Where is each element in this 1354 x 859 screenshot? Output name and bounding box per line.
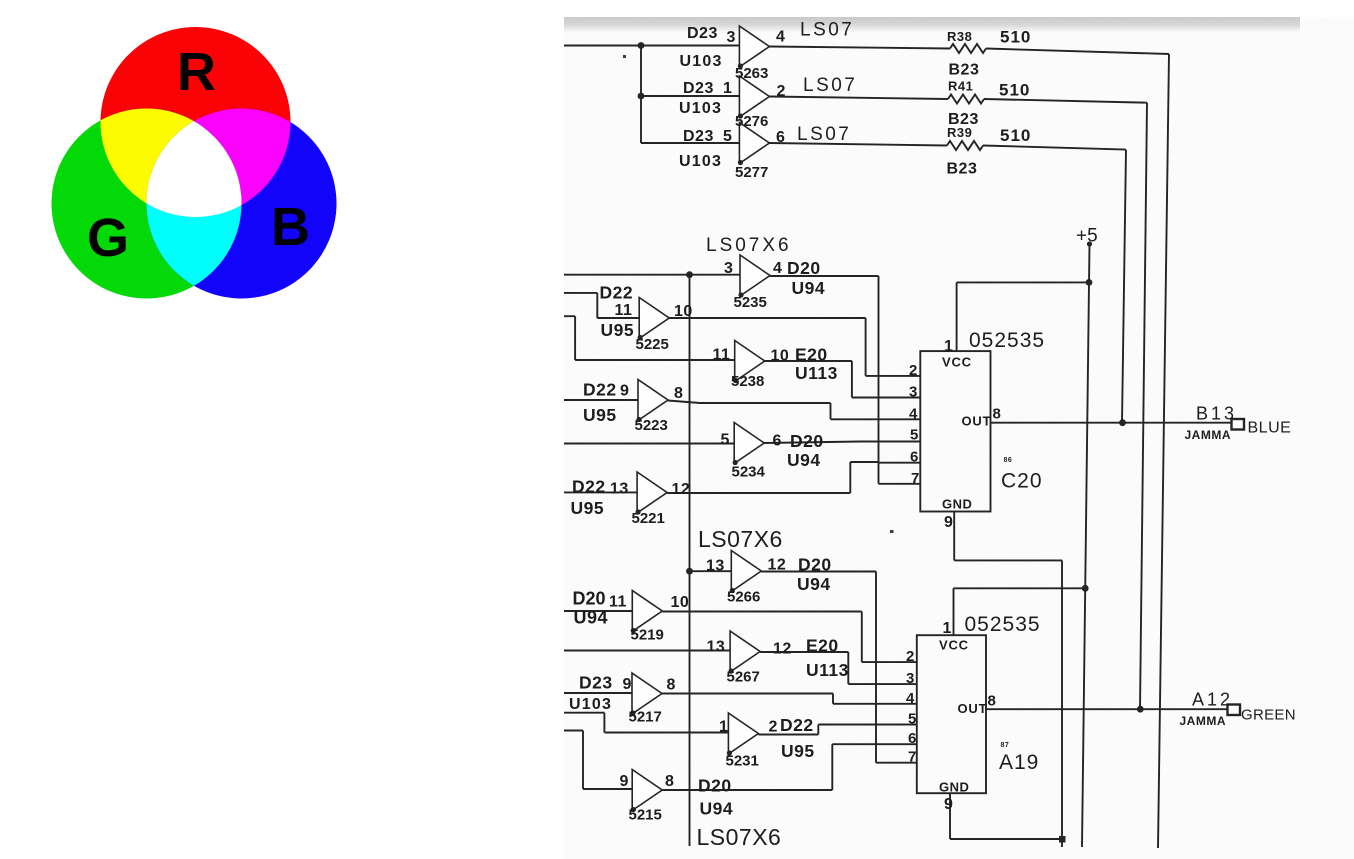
wire C20 OUT to JAMMA B13 (991, 422, 1233, 424)
wire vertical branch from row1 junction (640, 46, 642, 144)
buffer U103 S276 (LS07) (739, 76, 769, 117)
node bus junction bottom (686, 568, 693, 575)
wire A19 pin2 (862, 661, 917, 663)
wire S221 output (667, 462, 878, 493)
wire vertical S235 to pin6/7 (878, 276, 880, 484)
wire A19 pin5 (818, 724, 917, 726)
wire S221 input (564, 491, 637, 493)
wire input bus entry (564, 274, 740, 276)
wire A19 GND pin9 (950, 793, 1062, 847)
buffer U94 S215 (632, 770, 662, 811)
wire S231 output D22 (758, 725, 818, 735)
resistor R38 510 (950, 44, 986, 53)
scanned schematic background (564, 17, 1354, 859)
node junction row2 (638, 93, 645, 100)
buffer U94 S266 (731, 551, 761, 592)
buffer U94 S235 (740, 255, 770, 296)
speck (623, 55, 626, 58)
wire vertical input bus (689, 275, 691, 846)
buffer U103 S277 (LS07) (739, 123, 769, 164)
green circle G (52, 109, 242, 299)
buffer U94 S219 (632, 591, 662, 632)
wire R41 to right vertical v2 (984, 99, 1147, 103)
wire S234 input (564, 443, 734, 445)
wire net D23.5 input row (641, 142, 739, 144)
wire S225 input step (564, 293, 639, 318)
wire S238 input step (564, 316, 735, 360)
blue circle B (147, 109, 337, 299)
wire S217 input (564, 692, 632, 694)
wire S215 output (662, 744, 876, 790)
wire A19 VCC pin1 (954, 588, 1086, 635)
speck2 (890, 530, 894, 533)
node bus junction top (686, 271, 693, 278)
yellow overlap R+G (52, 109, 242, 299)
IC 052535 A19 (917, 635, 986, 793)
wire +5 rail (1082, 244, 1090, 847)
wire vertical net RED v1 (1158, 54, 1169, 848)
wire S277 output to R39 (769, 143, 947, 146)
wire S225 output (669, 318, 865, 376)
buffer U113 S267 (730, 631, 760, 672)
magenta overlap R+B (147, 109, 337, 299)
JAMMA pin B13 square (1232, 419, 1245, 430)
node GND junction square (1059, 836, 1066, 843)
wire net D23.1 input row (641, 95, 739, 97)
wire A19 pin7 (876, 762, 917, 764)
node junction row1 (638, 42, 645, 49)
wire R38 to right vertical v1 (986, 49, 1169, 55)
buffer U94 S234 (734, 423, 764, 464)
wire S217 output (662, 694, 833, 704)
wire S219 input (564, 610, 632, 612)
wire S219 output (662, 612, 862, 663)
scan top gray band (564, 17, 1300, 33)
buffer U95 S221 (637, 472, 667, 513)
wire S267 output E20 (760, 652, 848, 684)
IC 052535 C20 (920, 351, 990, 511)
wire S238 output E20 (765, 361, 852, 398)
wire S215 input step (564, 731, 632, 790)
wire A19 pin6 (876, 743, 917, 745)
node BLUE junction v3 (1119, 419, 1126, 426)
wire C20 VCC pin1 (957, 282, 1090, 351)
wire S267 input (564, 650, 730, 652)
wire S234 output to C20 pin5 (764, 442, 920, 444)
wire A19 OUT to JAMMA A12 (986, 708, 1227, 710)
wire R39 to right vertical v3 (983, 146, 1126, 150)
buffer U95 S231 (728, 713, 758, 754)
JAMMA pin A12 square (1228, 705, 1241, 716)
buffer U95 S223 (638, 380, 668, 421)
wire S223 input (564, 399, 638, 401)
wire C20 pin4 (831, 418, 921, 420)
wire C20 GND pin9 (954, 512, 1062, 840)
node A19 VCC tee on +5 rail (1082, 585, 1089, 592)
cyan overlap G+B (147, 109, 337, 299)
svg-text:B: B (271, 197, 310, 257)
wire S276 output to R41 (769, 97, 948, 100)
wire S266 input (690, 570, 732, 572)
buffer U103 S217 (632, 673, 662, 714)
wire net D23.3 input row (564, 45, 739, 47)
node +5 top (1087, 241, 1092, 246)
wire C20 pin6 (879, 462, 921, 464)
wire A19 pin3 (848, 683, 917, 685)
scan noise overlay (564, 17, 1354, 859)
wire C20 pin7 (879, 483, 921, 485)
node GREEN junction v2 (1137, 706, 1144, 713)
node C20 VCC tee (1086, 279, 1093, 286)
wire A19 pin4 (833, 703, 917, 705)
wire C20 pin2 (866, 375, 921, 377)
wire S223 output (668, 401, 831, 420)
svg-text:G: G (87, 208, 129, 268)
wire S231 input step (564, 713, 728, 733)
wire S263 output to R38 (769, 47, 950, 49)
red circle R (101, 27, 291, 217)
buffer U103 S263 (LS07) (739, 26, 769, 67)
wire vertical net GREEN v2 (1140, 103, 1147, 710)
buffer U95 S225 (639, 298, 669, 339)
resistor R41 510 (948, 95, 984, 104)
wire S235 output D20 (770, 275, 879, 277)
svg-text:R: R (177, 42, 216, 102)
white center overlap R+G+B (147, 109, 337, 299)
resistor R39 510 (947, 141, 983, 150)
wire C20 pin3 (852, 397, 920, 399)
wire vertical net BLUE v3 (1122, 150, 1126, 423)
wire S266 output D20 (761, 572, 876, 763)
buffer U113 S238 (735, 341, 765, 382)
